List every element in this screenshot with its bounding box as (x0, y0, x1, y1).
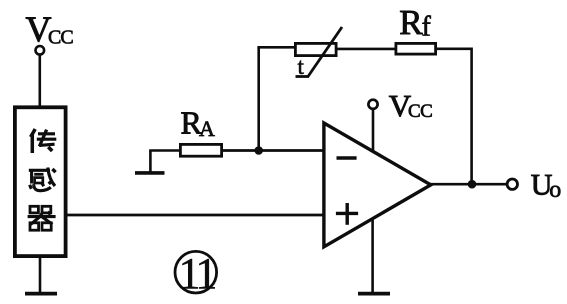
svg-text:t: t (298, 54, 305, 79)
svg-text:f: f (422, 12, 432, 43)
svg-text:A: A (199, 116, 215, 141)
svg-text:CC: CC (408, 101, 432, 122)
svg-text:CC: CC (48, 27, 73, 49)
svg-text:o: o (549, 177, 561, 203)
svg-text:11: 11 (179, 249, 216, 298)
svg-text:R: R (399, 3, 423, 42)
